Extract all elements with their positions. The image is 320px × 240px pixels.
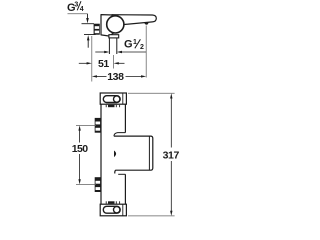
top cap inner line xyxy=(122,93,124,104)
label G3/4 xyxy=(67,1,84,14)
spout outline (front view) xyxy=(114,136,153,173)
body left edge xyxy=(100,104,102,204)
top handle stadium xyxy=(103,96,120,103)
svg-text:4: 4 xyxy=(80,6,84,13)
spout inner end line xyxy=(148,136,150,170)
left arrow + line xyxy=(92,75,97,77)
top supply nut xyxy=(95,118,101,133)
ticks above bottom cap xyxy=(106,201,119,203)
leader line under G3/4 xyxy=(68,13,88,15)
bottom stub xyxy=(118,173,125,175)
right tail + inward arrow xyxy=(114,62,119,64)
body wedge (side view) xyxy=(101,15,113,36)
bottom extension line xyxy=(128,215,175,217)
svg-text:138: 138 xyxy=(107,71,124,83)
G1/2 leader right segment with left-pointing arrow at pipe xyxy=(117,51,146,53)
svg-text:317: 317 xyxy=(163,149,180,161)
knob circle (side view) xyxy=(107,16,124,33)
collar below knob xyxy=(109,35,119,38)
dimension 51 xyxy=(79,36,125,82)
right extension line from aerator xyxy=(145,26,147,78)
top stub + curl into spout xyxy=(114,133,126,137)
union top line xyxy=(82,23,95,25)
body right edge lower xyxy=(124,174,126,204)
svg-text:150: 150 xyxy=(72,143,88,155)
label G1/2 xyxy=(124,38,144,50)
aerator tip xyxy=(144,22,148,25)
down arrow to inlet union xyxy=(86,14,89,24)
svg-text:3: 3 xyxy=(74,1,78,8)
left extension line (wall plane) xyxy=(91,36,93,82)
droplet mark on body xyxy=(114,151,116,158)
hex nut (side view) xyxy=(94,24,100,35)
svg-text:51: 51 xyxy=(98,58,109,70)
right line + arrow xyxy=(126,75,143,77)
bottom handle stadium xyxy=(103,206,120,213)
dimension 138 xyxy=(92,26,146,84)
dimension 150 xyxy=(72,125,96,184)
right extension line (pipe centre) xyxy=(113,55,115,69)
bottom handle circle xyxy=(114,207,120,213)
top handle circle xyxy=(114,96,120,102)
body right edge upper xyxy=(124,104,126,132)
top extension line xyxy=(128,92,175,94)
dim line lower xyxy=(170,161,172,212)
ticks under top cap xyxy=(106,105,119,107)
bottom extension line xyxy=(76,183,96,185)
top cap xyxy=(100,93,126,104)
dim line upper xyxy=(170,93,172,98)
dim line lower xyxy=(79,154,81,180)
dim line upper xyxy=(78,125,80,130)
top extension line xyxy=(76,124,96,126)
G1/2 leader left segment with right-pointing arrow at pipe xyxy=(95,51,109,53)
union bottom line xyxy=(84,34,96,36)
bottom cap xyxy=(100,204,126,216)
bottom cap inner line xyxy=(122,204,124,216)
bottom supply nut xyxy=(95,177,101,192)
shower pipe (side view) xyxy=(109,38,116,54)
svg-text:G: G xyxy=(124,38,133,50)
up arrow to union bottom xyxy=(87,35,90,48)
left tail + inward arrow xyxy=(79,62,88,64)
dimension 317 xyxy=(128,93,179,216)
svg-text:2: 2 xyxy=(140,44,144,51)
spout (side view) xyxy=(112,15,156,25)
